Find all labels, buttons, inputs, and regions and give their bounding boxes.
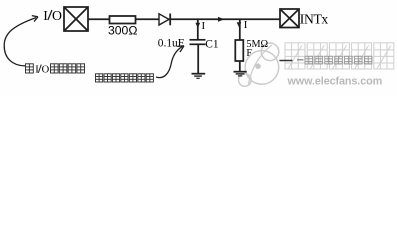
svg-text:I: I (244, 19, 248, 31)
svg-text:C1: C1 (205, 39, 219, 51)
svg-text:www.elecfans.com: www.elecfans.com (287, 75, 383, 87)
svg-text:I: I (35, 65, 39, 76)
svg-text:O: O (42, 65, 50, 76)
svg-text:I: I (202, 20, 206, 32)
svg-text:F: F (246, 48, 252, 59)
svg-text:INTx: INTx (300, 12, 329, 27)
svg-text:300Ω: 300Ω (108, 24, 137, 38)
svg-text:I: I (43, 8, 48, 23)
svg-text:O: O (52, 8, 62, 23)
